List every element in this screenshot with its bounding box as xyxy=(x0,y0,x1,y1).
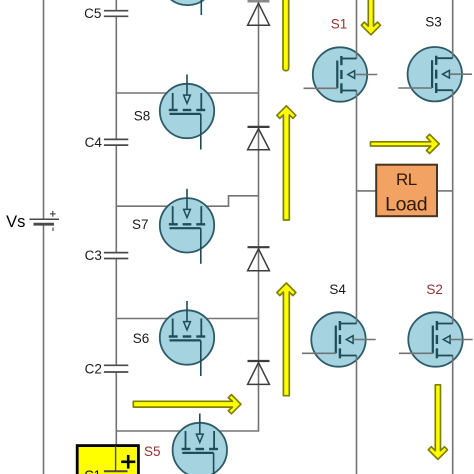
wire S7 row node C xyxy=(116,196,258,206)
wire S6 row node B xyxy=(116,318,258,320)
svg-text:S8: S8 xyxy=(134,108,151,123)
transistor S9 partial top xyxy=(160,0,214,5)
wire load right xyxy=(437,190,453,192)
capacitor C4 xyxy=(104,138,128,140)
capacitor C2 xyxy=(104,364,128,366)
transistor S5 xyxy=(173,423,227,474)
svg-text:Load: Load xyxy=(385,193,427,215)
svg-text:S5: S5 xyxy=(144,444,161,459)
capacitor C3 xyxy=(104,252,128,254)
svg-text:C3: C3 xyxy=(85,248,102,263)
svg-text:Vs: Vs xyxy=(6,213,25,231)
wire H-bridge left rail xyxy=(356,0,358,47)
wire H-bridge right rail xyxy=(452,0,454,47)
wire S5 row node A xyxy=(116,430,259,432)
transistor S1 xyxy=(313,47,367,101)
diode D4 top xyxy=(248,0,270,3)
svg-text:C4: C4 xyxy=(85,135,103,150)
svg-text:RL: RL xyxy=(396,170,417,189)
arrow right to load xyxy=(371,134,440,153)
arrow right bottom xyxy=(133,395,241,414)
diode D1 bottom xyxy=(248,360,270,362)
svg-text:S7: S7 xyxy=(132,217,149,232)
wire load left xyxy=(357,190,377,192)
arrow shaft top center xyxy=(283,0,289,71)
wire into C1 xyxy=(115,446,117,471)
transistor S7 xyxy=(160,198,214,252)
wire left source rail xyxy=(43,0,45,219)
svg-text:S3: S3 xyxy=(425,14,442,29)
svg-text:C2: C2 xyxy=(85,361,102,376)
capacitor C1 plate xyxy=(104,470,128,472)
arrow down bottom right xyxy=(428,385,447,460)
capacitor C5 xyxy=(104,10,128,12)
arrow up mid xyxy=(277,106,296,220)
svg-text:S4: S4 xyxy=(329,282,346,297)
transistor S2 xyxy=(408,312,462,366)
diode D3 xyxy=(248,126,270,128)
transistor S6 xyxy=(160,310,214,364)
transistor S4 xyxy=(311,312,365,366)
svg-text:S2: S2 xyxy=(426,282,443,297)
diode D2 xyxy=(248,246,270,248)
svg-text:S1: S1 xyxy=(331,16,348,31)
arrow up lower xyxy=(277,283,296,396)
transistor S3 xyxy=(408,47,462,101)
svg-text:C5: C5 xyxy=(84,6,101,21)
wire capacitor ladder xyxy=(115,0,117,11)
C1 plus sign xyxy=(127,455,130,469)
wire diode chain rail xyxy=(258,2,260,431)
wire S8 row node D xyxy=(116,92,258,94)
battery Vs xyxy=(30,218,60,220)
svg-text:C1: C1 xyxy=(84,468,101,474)
arrow down top right xyxy=(361,0,380,35)
capacitor C1 box xyxy=(77,446,138,474)
transistor S8 xyxy=(160,84,214,138)
load RL box xyxy=(376,165,437,217)
svg-text:S6: S6 xyxy=(133,331,150,346)
